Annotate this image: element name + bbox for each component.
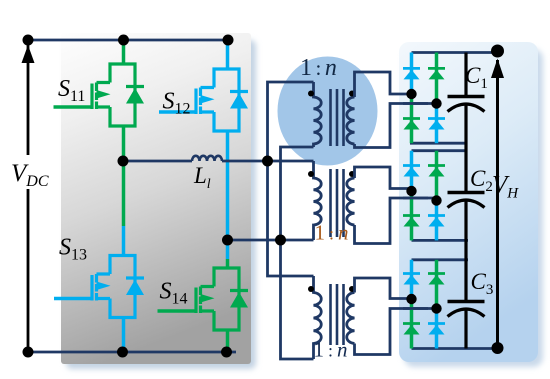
wire: phase rail B (228, 239, 314, 242)
switch S12 (159, 69, 248, 131)
diode D21 (403, 166, 420, 177)
node: VH positive terminal (491, 45, 504, 58)
node: stage1 string A tap (406, 89, 416, 99)
diode D31 (403, 274, 420, 285)
node: bottom rail S13 (117, 347, 128, 358)
transformer T1 primary winding (314, 82, 322, 147)
diode D32 (428, 274, 445, 285)
wire: T1 secondary bottom lead (355, 104, 437, 148)
wire: T2 secondary top lead (355, 167, 412, 189)
polarity dot T1 secondary (349, 91, 355, 97)
capacitor C3 (448, 302, 485, 349)
wire: stage3 top bar (412, 258, 469, 261)
wire: T2 bottom lead overlay at string crossing (403, 197, 428, 200)
svg-text:VDC: VDC (11, 160, 49, 190)
wire: T2 secondary bottom lead (355, 198, 437, 244)
transformer T2 primary winding (314, 161, 322, 240)
transformer T3 core (331, 284, 344, 345)
capacitor C1 (448, 53, 485, 193)
switch S11 (54, 64, 145, 126)
wire: right leg lower (green S14 branch) (226, 259, 230, 352)
highlight: bridge region gray panel (61, 33, 251, 364)
diode D13 (403, 119, 420, 130)
diode D12 (428, 68, 445, 79)
wire: T1 secondary top lead (355, 72, 412, 97)
wire: stage1 string A lower (green) (410, 94, 414, 143)
diode D23 (403, 216, 420, 227)
wire: stage2 top bar (412, 149, 467, 152)
source VDC arrow line (27, 44, 30, 352)
diode D24 (428, 216, 445, 227)
polarity dot T1 primary (308, 91, 314, 97)
wire: stage1 bottom bar (410, 142, 467, 145)
capacitor C2 (448, 193, 485, 302)
node: stage3 string B tap (431, 303, 441, 313)
wire: stage2 string A upper (blue) (410, 151, 414, 191)
wire: right leg upper (cyan S12 branch) (226, 40, 230, 259)
wire: stage2 string B lower (blue) (435, 201, 439, 241)
wire: stage1 top bar (412, 51, 498, 54)
svg-text:1:n: 1:n (300, 55, 337, 81)
diode D11 (403, 68, 420, 79)
wire: stage3 string B upper (green) (435, 260, 439, 309)
transformer T2 core (331, 169, 344, 237)
polarity dot T2 primary (308, 171, 314, 177)
wire: left leg lower (cyan S13 branch) (122, 226, 126, 352)
wire: T3 secondary top lead (355, 278, 412, 299)
wire: primary bus 2 (bottom returns T1,T3) (281, 147, 314, 359)
node: top rail S12 (223, 35, 234, 46)
node: stage3 string A tap (406, 294, 416, 304)
wire: stage2 string A lower (green) (410, 191, 414, 240)
highlight: ellipse on transformer T1 (278, 57, 378, 166)
wire: stage3 string B lower (blue) (435, 309, 439, 349)
node: bridge midpoint A (118, 156, 129, 167)
node: bridge midpoint B (222, 235, 233, 246)
switch S14 (158, 268, 249, 330)
wire: bottom DC rail (28, 351, 236, 354)
diode D14 (428, 119, 445, 130)
wire: stage1 string B lower (blue) (435, 104, 439, 144)
node: rail A / bus1 junction (262, 156, 273, 167)
node: rail B / bus2 junction (275, 235, 286, 246)
wire: top DC rail (28, 39, 230, 42)
wire: left leg upper (green S11 branch) (122, 40, 126, 226)
transformer T3 primary winding (314, 276, 322, 359)
transformer T2 secondary winding (347, 178, 355, 225)
inductor Ll (192, 156, 222, 161)
source VDC arrowhead (22, 45, 35, 63)
wire: stage2 bottom bar (412, 239, 469, 242)
diode D34 (428, 324, 445, 335)
svg-text:1:n: 1:n (315, 221, 349, 245)
output VH arrowhead (491, 59, 504, 79)
wire: stage1 string A upper (blue) (410, 53, 414, 95)
transformer T1 core (331, 89, 344, 146)
wire: stage2 string B upper (green) (435, 151, 439, 201)
node: stage1 string B tap (431, 98, 441, 108)
highlight: rectifier region blue panel (399, 42, 538, 362)
node: top rail left (23, 35, 34, 46)
transformer T1 secondary winding (347, 97, 355, 144)
wire: T3 bottom lead overlay at string crossing (403, 307, 428, 310)
polarity dot T3 primary (308, 286, 314, 292)
transformer T3 secondary winding (347, 293, 355, 344)
node: stage2 string A tap (406, 186, 416, 196)
output VH arrow line (496, 60, 499, 348)
node: VH negative terminal (492, 342, 504, 354)
switch S13 (54, 256, 144, 318)
node: stage2 string B tap (431, 195, 441, 205)
wire: stage1 string B upper (green) (435, 53, 439, 104)
wire: primary bus 1 (top feeds T1,T3) (268, 82, 314, 276)
polarity dot T2 secondary (349, 171, 355, 177)
diode D22 (428, 166, 445, 177)
node: bottom rail left (23, 347, 34, 358)
svg-text:1:n: 1:n (314, 338, 348, 362)
wire: phase rail A with inductor gap (123, 160, 314, 163)
wire: stage3 string A upper (blue) (410, 260, 414, 299)
wire: T3 secondary bottom lead (355, 309, 437, 355)
panel drop shadows (66, 40, 256, 369)
wire: output bottom bar (412, 347, 498, 350)
diode D33 (403, 324, 420, 335)
wire: stage3 string A lower (green) (410, 299, 414, 349)
wire: T1 bottom lead overlay at string crossing (403, 102, 428, 105)
node: bottom rail S14 (221, 347, 232, 358)
node: top rail S11 (118, 35, 129, 46)
polarity dot T3 secondary (349, 286, 355, 292)
